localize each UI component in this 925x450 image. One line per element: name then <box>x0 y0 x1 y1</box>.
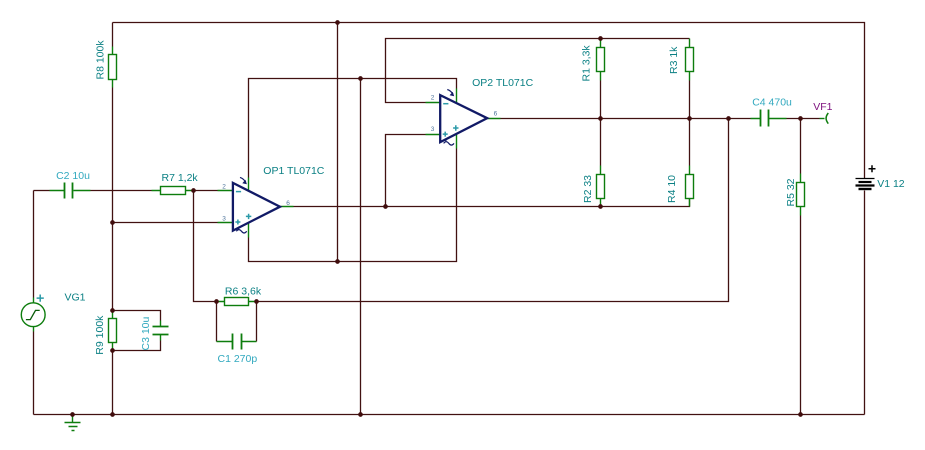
svg-text:C2 10u: C2 10u <box>56 170 90 182</box>
svg-text:R5 32: R5 32 <box>785 178 797 206</box>
svg-text:OP2 TL071C: OP2 TL071C <box>472 77 534 89</box>
svg-text:3: 3 <box>431 126 435 133</box>
svg-text:V1 12: V1 12 <box>877 178 905 190</box>
svg-text:C3 10u: C3 10u <box>140 316 152 350</box>
svg-text:6: 6 <box>286 200 290 207</box>
svg-text:C4 470u: C4 470u <box>752 97 792 109</box>
svg-text:R2 33: R2 33 <box>582 175 594 203</box>
svg-text:R6 3,6k: R6 3,6k <box>225 286 262 298</box>
svg-text:OP1 TL071C: OP1 TL071C <box>263 165 325 177</box>
svg-text:R1 3,3k: R1 3,3k <box>580 45 592 82</box>
svg-text:R7 1,2k: R7 1,2k <box>162 172 199 184</box>
svg-text:C1 270p: C1 270p <box>218 353 258 365</box>
svg-text:3: 3 <box>222 216 226 223</box>
svg-text:2: 2 <box>222 184 226 191</box>
svg-text:VF1: VF1 <box>813 101 832 113</box>
svg-text:6: 6 <box>494 111 498 118</box>
svg-text:R3 1k: R3 1k <box>668 46 680 74</box>
svg-text:R9 100k: R9 100k <box>94 315 106 355</box>
svg-text:VG1: VG1 <box>65 292 86 304</box>
svg-text:2: 2 <box>431 95 435 102</box>
svg-text:R8 100k: R8 100k <box>95 40 107 80</box>
svg-text:R4 10: R4 10 <box>666 175 678 203</box>
